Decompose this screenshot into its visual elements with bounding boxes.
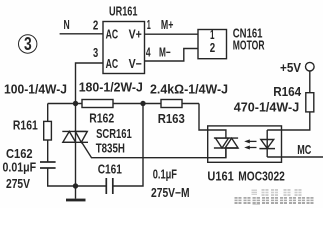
watermark line 1 (252, 189, 302, 196)
node junction dot bus-mid (C161 branch) (140, 101, 145, 106)
wire R164 to LED anode (267, 112, 310, 130)
node 3 circled marker (19, 33, 37, 54)
wire M+ (145, 33, 199, 35)
wire R161 to C162 (47, 140, 49, 162)
capacitor C162 (3, 147, 56, 191)
wire main top bus (48, 103, 199, 105)
op-amp U1: U161 MOC3022 optocoupler box (207, 126, 284, 183)
svg-text:AC: AC (106, 57, 119, 71)
wire bus right end into optocoupler (199, 104, 226, 139)
wire bus to R161 (47, 104, 49, 122)
svg-text:3: 3 (24, 33, 32, 54)
diode LED inside U161 (259, 130, 275, 157)
svg-text:+5V: +5V (280, 61, 302, 75)
svg-text:R162: R162 (89, 111, 114, 125)
svg-text:V−: V− (129, 57, 142, 71)
svg-text:2: 2 (210, 41, 215, 55)
svg-text:R163: R163 (158, 112, 185, 126)
wire C162 down to bottom bus (48, 168, 107, 186)
wire UR161 pin 3 down to main bus (76, 63, 104, 104)
svg-text:2: 2 (93, 19, 98, 33)
svg-text:1: 1 (147, 18, 151, 32)
svg-text:470-1/4W-J: 470-1/4W-J (234, 100, 299, 114)
svg-text:MOTOR: MOTOR (233, 39, 265, 53)
wire M- with jog (145, 49, 199, 62)
svg-text:T835H: T835H (96, 142, 125, 156)
svg-text:C162: C162 (6, 147, 33, 161)
wire +5V to R164 (309, 71, 311, 93)
svg-text:C161: C161 (98, 163, 122, 177)
wire C161 right to mid junction vertical (113, 104, 143, 187)
wire MC output (267, 156, 323, 158)
svg-text:275V−M: 275V−M (151, 186, 190, 200)
svg-text:UR161: UR161 (109, 4, 138, 18)
svg-text:4: 4 (146, 45, 151, 59)
svg-text:MC: MC (297, 143, 311, 157)
transistor SCR161 T835H triac (62, 127, 132, 156)
resistor R164 (234, 85, 314, 114)
svg-text:2.4kΩ-1/4W-J: 2.4kΩ-1/4W-J (150, 82, 228, 96)
svg-text:3: 3 (93, 46, 98, 60)
svg-text:275V: 275V (6, 177, 31, 191)
svg-text:MOC3022: MOC3022 (238, 169, 285, 183)
transistor opto-triac inside U161 (214, 138, 238, 158)
svg-text:AC: AC (106, 28, 119, 42)
svg-text:M+: M+ (161, 18, 174, 32)
svg-text:V+: V+ (129, 28, 142, 42)
capacitor C161 (98, 163, 190, 200)
svg-text:U161: U161 (207, 169, 233, 183)
svg-text:M−: M− (159, 45, 171, 59)
ground (66, 186, 86, 201)
node junction dot bottom (ground) (73, 183, 78, 188)
svg-text:0.01μF: 0.01μF (3, 161, 37, 175)
wire N to UR161 pin 2 (60, 33, 103, 35)
op-amp U1: UR161 driver box (103, 4, 145, 73)
node junction dot bus-left (pin3 / triac) (73, 101, 78, 106)
svg-text:100-1/4W-J: 100-1/4W-J (4, 83, 67, 97)
svg-text:R164: R164 (273, 85, 301, 99)
resistor R161 (13, 119, 52, 141)
resistor R163 body (158, 100, 185, 127)
svg-text:N: N (64, 18, 70, 32)
svg-text:R161: R161 (13, 119, 38, 133)
wire triac gate to optocoupler (82, 143, 226, 158)
light arrows (244, 139, 256, 149)
wire triac main vertical (75, 104, 77, 187)
power +5V terminal (280, 61, 314, 75)
connector CN161 MOTOR (198, 27, 265, 59)
watermark line 2 (235, 197, 314, 205)
svg-text:180-1/2W-J: 180-1/2W-J (79, 80, 143, 94)
svg-text:0.1μF: 0.1μF (153, 167, 178, 181)
resistor R162 body (82, 100, 114, 126)
svg-text:SCR161: SCR161 (96, 127, 132, 141)
